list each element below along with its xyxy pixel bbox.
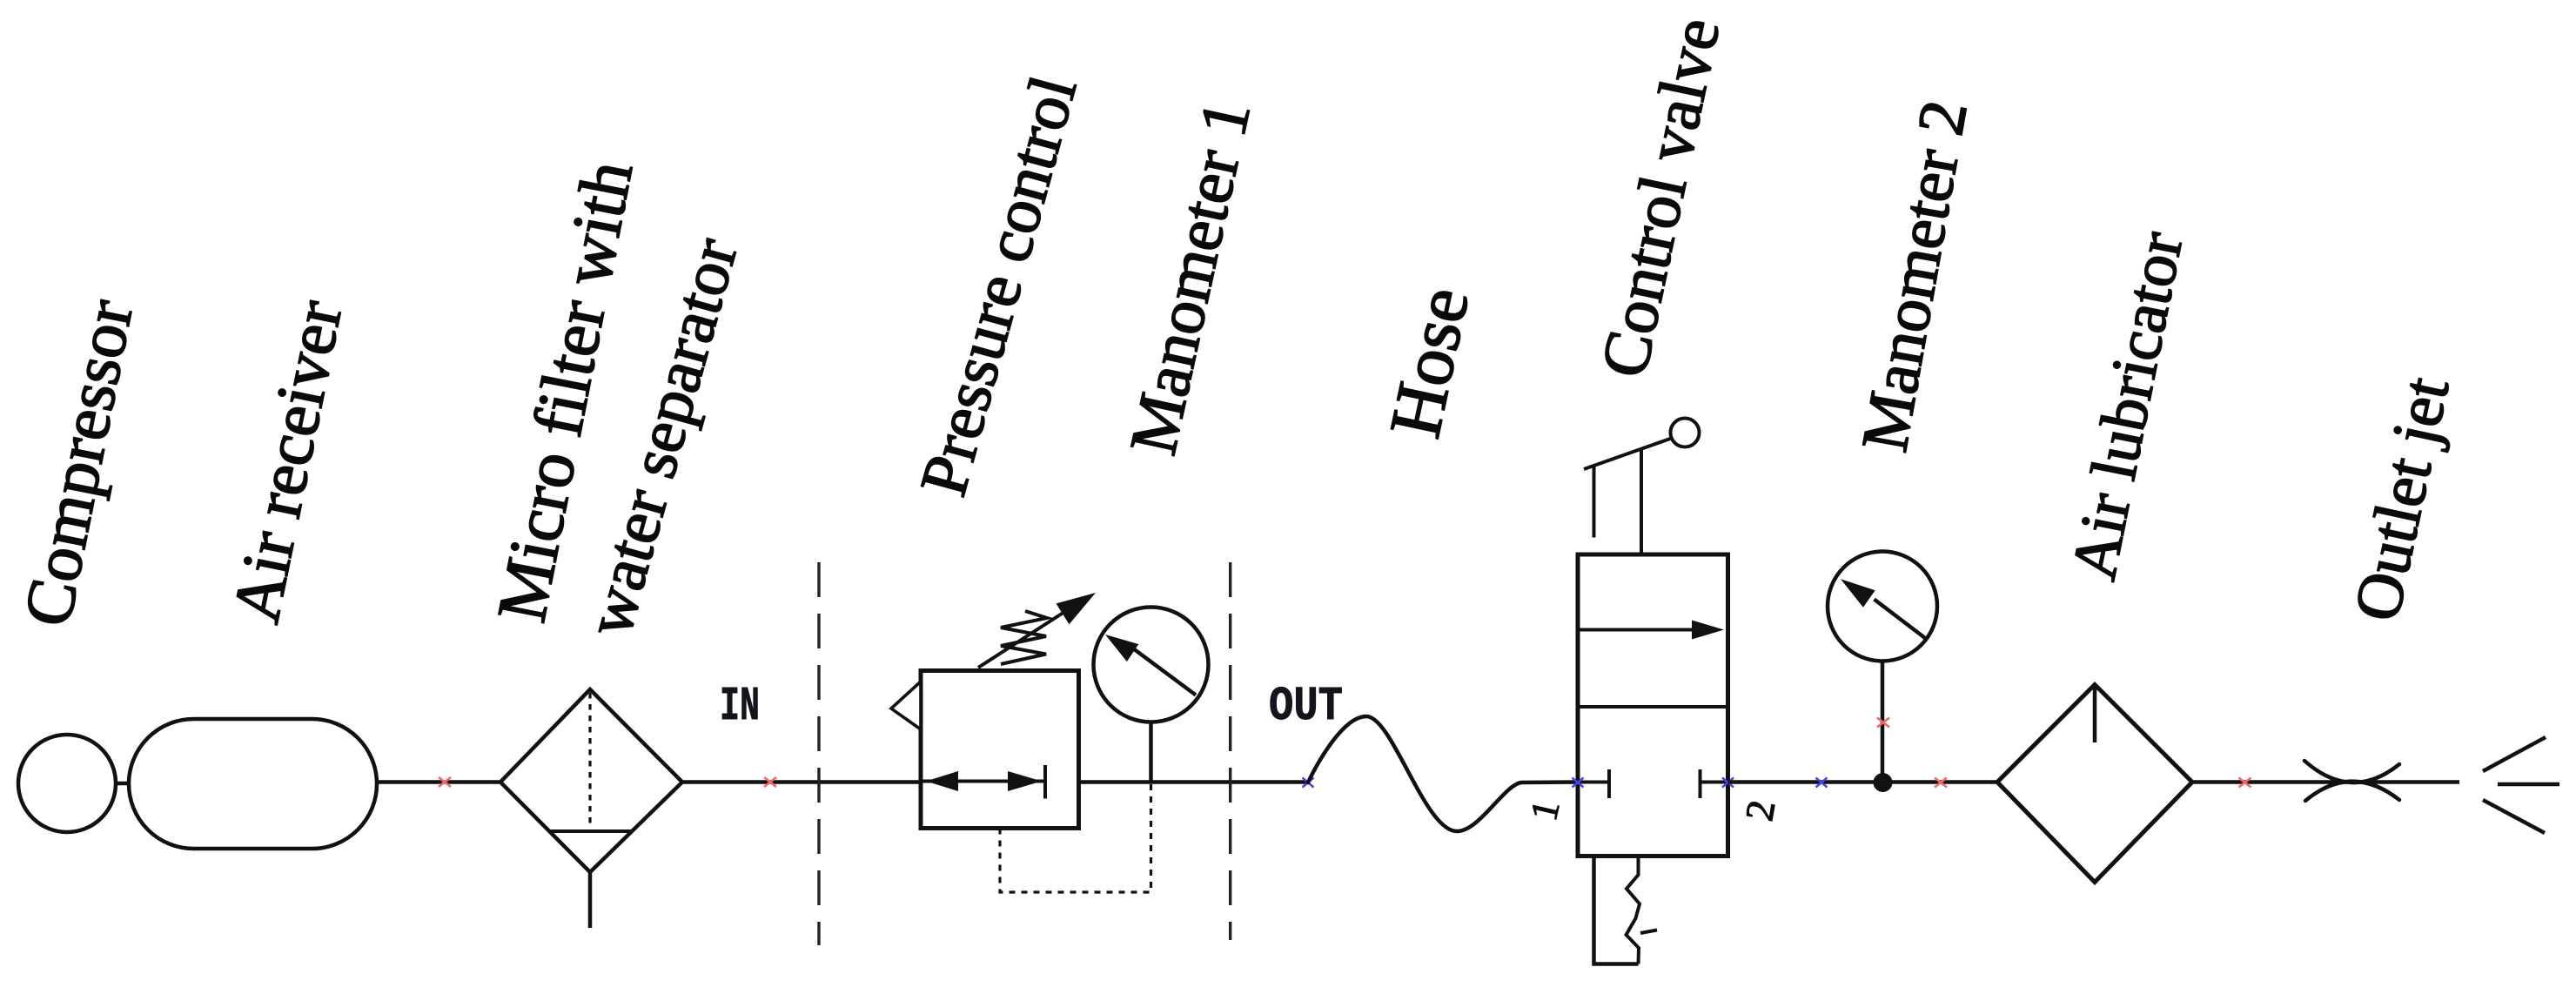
filter dashed center line <box>588 693 591 829</box>
lever knob <box>1671 419 1700 447</box>
filter sump chord <box>549 829 632 833</box>
lever arm <box>1584 438 1673 469</box>
hose curve <box>1308 716 1579 831</box>
wire compressor to receiver <box>116 782 130 786</box>
air lubricator diamond <box>1997 685 2192 883</box>
valve flow arrowhead <box>1692 621 1724 640</box>
pilot dashed line <box>1000 782 1151 892</box>
svg-text:Pressure control: Pressure control <box>906 68 1091 503</box>
svg-text:Hose: Hose <box>1374 280 1485 444</box>
wire lubricator to jet <box>2192 780 2459 784</box>
filter drain line <box>588 872 593 928</box>
wire valve to lubricator <box>1728 780 2000 784</box>
svg-text:Air lubricator: Air lubricator <box>2058 226 2197 586</box>
adjustment shaft <box>978 606 1074 668</box>
pressure regulator box <box>921 671 1079 829</box>
relief triangle <box>891 682 921 729</box>
valve return spring frame <box>1594 856 1639 964</box>
junction dot <box>1874 773 1893 792</box>
regulator internal flow line <box>921 780 1045 783</box>
regulator seat tick <box>1043 765 1047 799</box>
manometer 1 needle arrowhead <box>1105 635 1138 662</box>
adjustment spring zigzag <box>1001 611 1047 664</box>
blue x hose start <box>1303 778 1314 788</box>
lever left stem <box>1593 466 1596 538</box>
spring tick <box>1640 930 1657 934</box>
manometer 1 needle <box>1133 648 1196 695</box>
svg-text:Compressor: Compressor <box>9 293 147 632</box>
throttle upper arc <box>2304 761 2399 782</box>
section divider 1 <box>817 562 820 945</box>
control valve body <box>1578 554 1728 856</box>
svg-text:2: 2 <box>1736 796 1783 823</box>
red x marker <box>439 777 451 787</box>
valve blocked port 1 T <box>1578 781 1609 784</box>
wire regulator to hose <box>1079 780 1309 784</box>
svg-text:OUT: OUT <box>1269 679 1343 734</box>
blue x valve port 2 <box>1722 778 1734 788</box>
red x marker <box>764 777 776 787</box>
manometer 2 stem <box>1881 661 1885 782</box>
section divider 2 <box>1229 562 1231 940</box>
wire filter to regulator <box>682 780 921 784</box>
micro filter diamond <box>500 689 682 872</box>
svg-text:IN: IN <box>720 679 760 734</box>
jet fan upper <box>2483 737 2546 771</box>
manometer 2 needle <box>1875 600 1926 639</box>
svg-text:Manometer 2: Manometer 2 <box>1848 95 1981 457</box>
manometer 2 needle arrowhead <box>1841 579 1875 608</box>
regulator right arrowhead <box>1008 771 1042 791</box>
wire receiver to filter <box>377 780 502 784</box>
lever right stem <box>1640 448 1643 554</box>
valve flow arrow line <box>1578 628 1697 632</box>
throttle lower arc <box>2305 782 2399 801</box>
valve return spring zigzag <box>1627 856 1640 964</box>
compressor circle <box>18 735 116 832</box>
adjustment arrowhead <box>1057 593 1097 624</box>
lubricator drop line <box>2093 687 2097 742</box>
air receiver stadium <box>129 719 377 849</box>
red x after junction <box>1935 778 1947 788</box>
svg-text:Control valve: Control valve <box>1587 11 1734 383</box>
svg-text:Air receiver: Air receiver <box>218 294 357 628</box>
red x on manometer 2 stem <box>1877 718 1889 728</box>
blue x after valve <box>1816 778 1828 788</box>
manometer 1 stem <box>1149 722 1153 782</box>
manometer 2 circle <box>1828 552 1937 662</box>
blue x valve port 1 <box>1573 778 1584 788</box>
svg-text:Manometer 1: Manometer 1 <box>1115 94 1265 461</box>
regulator left arrowhead <box>926 771 958 791</box>
manometer 1 circle <box>1094 608 1209 722</box>
svg-text:1: 1 <box>1522 796 1568 824</box>
svg-text:Outlet jet: Outlet jet <box>2340 371 2463 627</box>
jet fan lower <box>2483 800 2545 833</box>
valve cell divider <box>1578 705 1728 709</box>
red x after lubricator <box>2239 778 2251 788</box>
jet fan middle <box>2498 782 2559 787</box>
valve blocked port 2 T <box>1701 781 1728 784</box>
